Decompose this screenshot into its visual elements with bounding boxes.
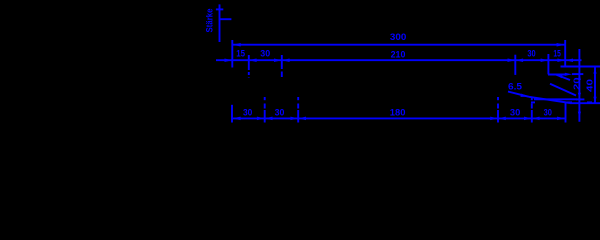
bottom ext x=232 [231, 105, 233, 123]
tick y=99.4 [576, 98, 584, 100]
extension line x=548.4 [547, 54, 549, 74]
svg-text:30: 30 [275, 108, 285, 118]
bottom text 30 d [544, 108, 552, 118]
svg-text:Stärke: Stärke [205, 9, 216, 33]
center line x=531.8 [531, 97, 533, 123]
top chain text 210 [391, 49, 406, 59]
bottom text 30 b [275, 108, 285, 118]
leader 6.5 line [508, 92, 577, 104]
top chain text 30 [260, 49, 270, 59]
vertical dim line x=594.5 [594, 68, 596, 103]
part edge y=66.9 [561, 66, 600, 68]
bottom chain dimension line [232, 117, 566, 119]
bottom text 30 c [510, 108, 521, 118]
extension line x=232 top [231, 40, 233, 68]
svg-text:15: 15 [236, 49, 245, 59]
top chain arrows [225, 58, 574, 62]
svg-text:30: 30 [510, 108, 521, 118]
svg-text:300: 300 [390, 32, 406, 42]
center line x=298.2 [297, 97, 299, 123]
leader 6.5 text [508, 81, 522, 91]
svg-text:20: 20 [572, 77, 582, 90]
svg-text:15: 15 [553, 48, 560, 58]
extension line x=515.3 [514, 55, 516, 75]
leader 6.5 arrow [520, 94, 529, 97]
extension line x=565 (300 right) [564, 40, 566, 67]
dimension 300 right arrow [557, 43, 565, 47]
top chain dimension line [216, 59, 582, 61]
svg-text:30: 30 [544, 108, 552, 118]
vertical dim line x=579.4 [578, 49, 580, 122]
top chain text 30 right [527, 48, 535, 58]
extension line x=249 [248, 55, 250, 78]
dimension 300 left arrow [232, 43, 240, 47]
label Staerke (rotated) [205, 9, 216, 33]
thickness edge line [219, 18, 232, 20]
leader arrow to x=572 [548, 74, 566, 76]
diagonal edge 1 arrowhead [556, 74, 563, 78]
svg-text:180: 180 [390, 107, 406, 117]
part edge y=103.2 [570, 102, 600, 104]
svg-text:30: 30 [260, 49, 270, 59]
bottom chain arrows [232, 117, 566, 121]
center line x=264.7 [264, 97, 266, 123]
svg-text:210: 210 [391, 49, 406, 59]
dim 40 text [585, 79, 595, 92]
diagonal edge 2 [550, 84, 576, 96]
hidden line y=102.4 dashes [531, 101, 592, 103]
thickness tick [216, 8, 223, 10]
svg-text:40: 40 [585, 79, 595, 92]
dimension 300 text [390, 32, 406, 42]
top chain text 15 [236, 49, 245, 59]
dim 20 text [572, 77, 582, 90]
center line x=498 [497, 97, 499, 123]
top chain text 15 right [553, 48, 560, 58]
dim 20 arrows [578, 74, 581, 117]
svg-text:6.5: 6.5 [508, 81, 522, 91]
dimension 300 line [232, 44, 565, 46]
part edge tick y=74.1 [572, 73, 583, 75]
svg-text:30: 30 [527, 48, 535, 58]
thickness detail vertical line [219, 4, 221, 42]
svg-text:30: 30 [243, 108, 252, 118]
bottom text 180 [390, 107, 406, 117]
bottom ext x=565.5 [565, 103, 567, 123]
extension line x=281.8 [281, 55, 283, 77]
diagonal edge 1 [556, 75, 570, 80]
dim 40 arrows [593, 68, 596, 103]
bottom text 30 a [243, 108, 252, 118]
